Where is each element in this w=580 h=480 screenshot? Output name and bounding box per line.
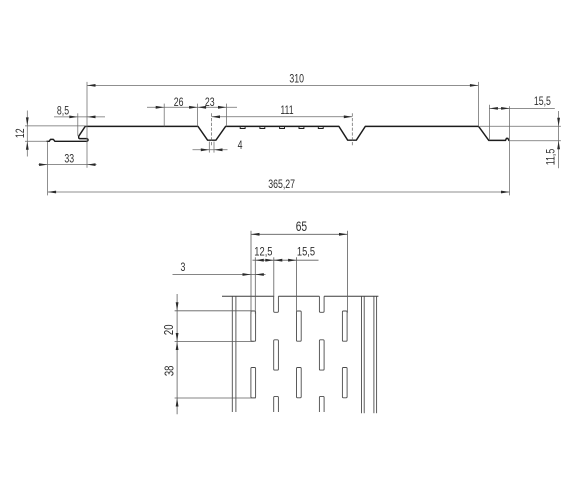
dimension 4 (V-notch bottom) — [193, 139, 243, 153]
dimension 3 — [173, 261, 266, 276]
svg-text:15,5: 15,5 — [297, 246, 315, 259]
svg-text:33: 33 — [64, 152, 74, 166]
edge notch slot column2 — [274, 296, 279, 312]
dimension 23 — [198, 96, 227, 127]
dimension 65 — [251, 219, 348, 314]
slots column3 — [297, 311, 302, 398]
svg-text:310: 310 — [289, 72, 304, 86]
dimension 310 — [87, 72, 478, 168]
dimension 365,27 — [48, 106, 510, 195]
svg-text:8,5: 8,5 — [57, 104, 69, 118]
panel top edge (plan view) — [222, 295, 378, 297]
dimension 26 — [147, 96, 237, 127]
svg-text:11,5: 11,5 — [544, 149, 558, 166]
svg-text:4: 4 — [238, 139, 243, 153]
slots column1 — [251, 311, 256, 398]
dimension 15,5 (top right) — [489, 95, 555, 140]
left groove double line — [232, 296, 236, 412]
svg-text:38: 38 — [163, 366, 177, 377]
svg-text:26: 26 — [174, 96, 184, 110]
svg-text:12: 12 — [14, 128, 28, 138]
dimension 12 (left, rotated) — [14, 111, 87, 157]
svg-text:20: 20 — [163, 325, 177, 336]
dimension 38 (rotated) — [163, 333, 256, 407]
svg-text:15,5: 15,5 — [534, 95, 551, 109]
dimension 111 — [212, 104, 353, 147]
svg-text:23: 23 — [205, 96, 215, 110]
slots column4 middle and bottom — [319, 340, 324, 412]
slots column5 — [342, 311, 347, 398]
dimension 11,5 (right, rotated) — [480, 111, 561, 168]
svg-text:12,5: 12,5 — [254, 246, 272, 259]
dimension 8,5 — [54, 104, 105, 135]
dimension 33 — [39, 142, 97, 196]
slots column2 middle and bottom — [274, 340, 279, 412]
perforation ticks on top surface — [240, 127, 323, 129]
dimension 20 (rotated) — [163, 294, 254, 414]
svg-text:65: 65 — [296, 219, 308, 235]
panel profile cross-section — [47, 126, 509, 141]
right groove double lines — [362, 296, 377, 413]
svg-text:3: 3 — [180, 261, 185, 275]
svg-text:365,27: 365,27 — [268, 178, 295, 192]
edge notch slot column4 — [319, 296, 324, 312]
dimension 12,5 — [253, 246, 276, 314]
svg-text:111: 111 — [280, 104, 293, 118]
dimension 15,5 (bottom view) — [274, 246, 319, 316]
